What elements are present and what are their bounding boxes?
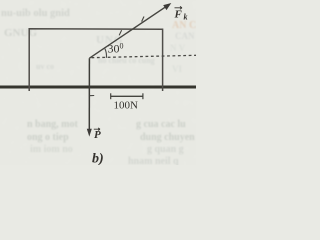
faint bleed-through text inside box bbox=[36, 34, 155, 71]
svg-text:g cua cac lu: g cua cac lu bbox=[136, 119, 186, 130]
ground bbox=[0, 86, 196, 89]
svg-text:g quan g: g quan g bbox=[147, 144, 184, 155]
scale bar bbox=[111, 95, 143, 97]
svg-text:uv co: uv co bbox=[36, 62, 54, 71]
svg-text:nu-uib olu gnid: nu-uib olu gnid bbox=[1, 8, 70, 19]
tick 2 on force line bbox=[142, 17, 144, 22]
faint text fragments right margin bbox=[170, 43, 186, 74]
faint bleed-through text top-left bbox=[1, 8, 70, 39]
svg-text:b): b) bbox=[92, 152, 104, 166]
svg-text:VI: VI bbox=[172, 64, 182, 74]
paper background bbox=[0, 0, 196, 165]
svg-text:CAN V: CAN V bbox=[175, 31, 196, 41]
faint bleed-through text top-right (orange chapter header) bbox=[172, 20, 211, 41]
svg-text:N V: N V bbox=[170, 43, 186, 53]
faint bleed-through text bottom-right bbox=[128, 119, 195, 167]
svg-text:dung chuyen: dung chuyen bbox=[140, 132, 195, 143]
arrowhead P bbox=[87, 129, 92, 137]
tick on P line bbox=[90, 95, 95, 97]
svg-text:AN CAN: AN CAN bbox=[172, 20, 196, 31]
dashed horizontal reference line bbox=[92, 55, 197, 57]
box (block resting on ground) bbox=[29, 29, 162, 91]
labels bbox=[92, 6, 188, 166]
svg-text:P: P bbox=[94, 129, 101, 141]
svg-text:k: k bbox=[184, 13, 188, 22]
faint bleed-through text bottom-left bbox=[27, 119, 79, 155]
angle arc bbox=[105, 49, 107, 58]
svg-text:ong o tiep: ong o tiep bbox=[27, 132, 69, 143]
force line F_k bbox=[89, 5, 168, 58]
svg-text:F: F bbox=[174, 9, 183, 21]
svg-text:hnam neil q: hnam neil q bbox=[128, 156, 179, 165]
main figure line-art bbox=[0, 3, 196, 137]
svg-text:n bang, mot: n bang, mot bbox=[27, 119, 79, 130]
arrowhead F_k bbox=[163, 3, 171, 10]
tick 1 on force line bbox=[119, 30, 121, 35]
svg-text:100N: 100N bbox=[114, 100, 139, 112]
vertical line P bbox=[88, 58, 90, 130]
svg-text:im iom no: im iom no bbox=[30, 144, 73, 155]
